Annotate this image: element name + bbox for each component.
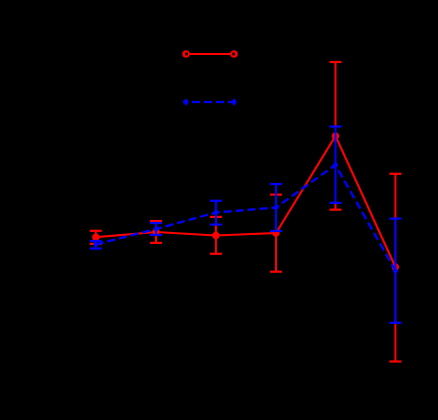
blue diamond markers: [93, 161, 398, 275]
LEGEND: [182, 50, 238, 106]
caps: [90, 127, 402, 323]
BLUE SERIES (dashed line, diamond markers, error bars): [90, 127, 402, 323]
data line: [96, 136, 396, 267]
RED SERIES (solid line, circle markers, error bars): [90, 62, 402, 362]
error bar verticals: [95, 241, 97, 249]
red markers: [92, 132, 399, 270]
caps: [90, 62, 402, 362]
data line dashed: [96, 165, 396, 271]
error bar verticals: [95, 231, 97, 244]
